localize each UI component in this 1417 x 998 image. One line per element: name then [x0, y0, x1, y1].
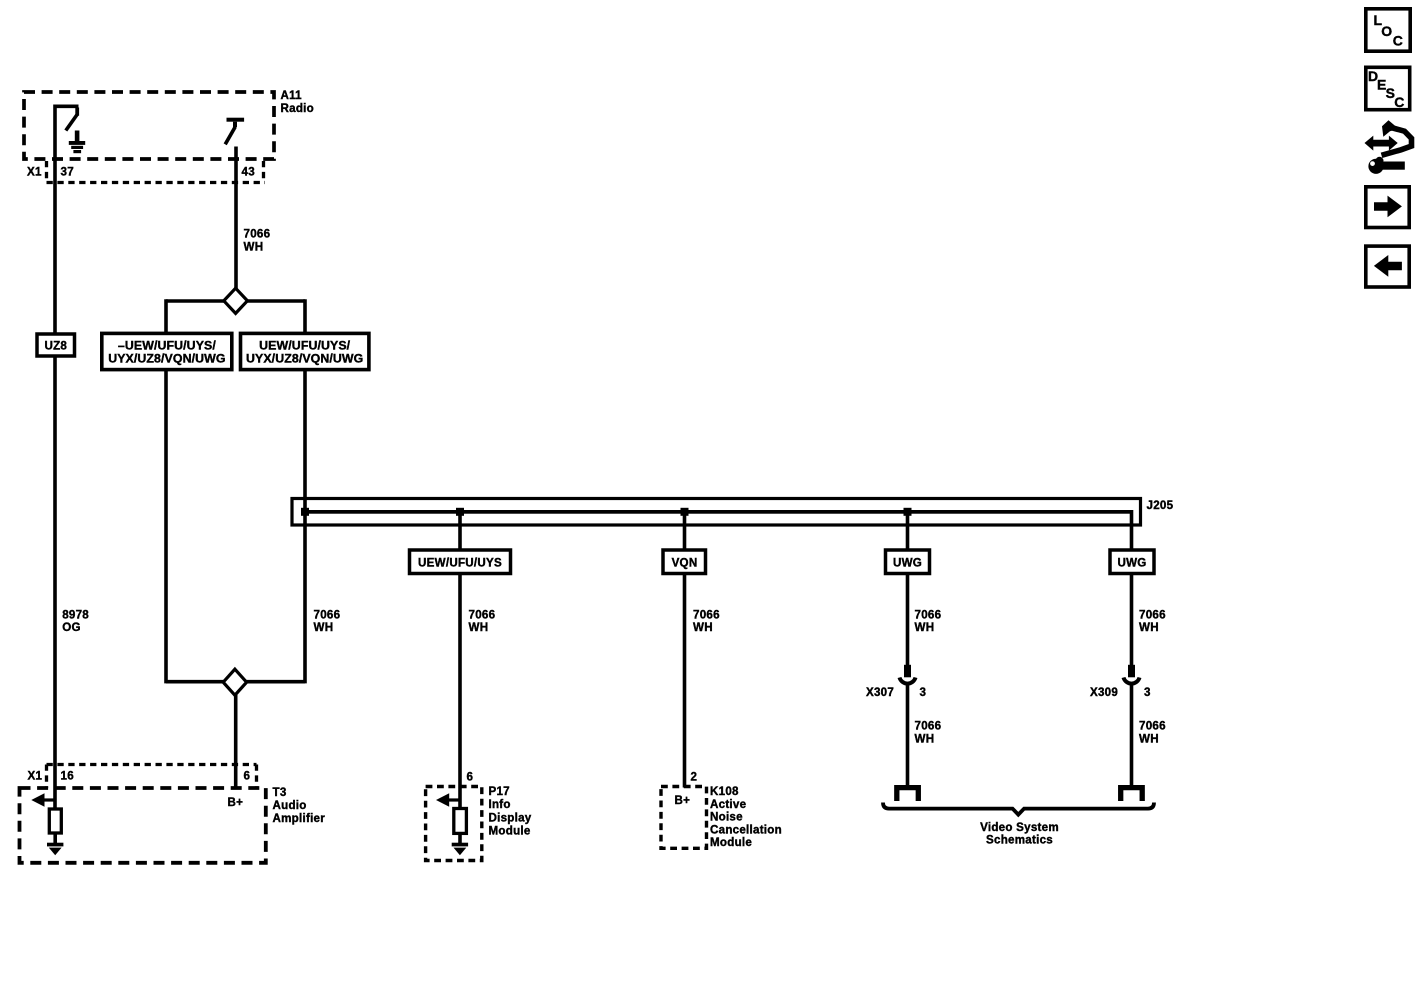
- svg-text:B+: B+: [675, 794, 691, 807]
- svg-text:X1: X1: [28, 770, 43, 783]
- svg-text:3: 3: [920, 686, 927, 699]
- svg-text:–UEW/UFU/UYS/: –UEW/UFU/UYS/: [118, 338, 216, 352]
- svg-text:8978: 8978: [62, 609, 89, 622]
- svg-text:Cancellation: Cancellation: [710, 824, 782, 837]
- svg-text:P17: P17: [489, 785, 510, 798]
- svg-text:Noise: Noise: [710, 811, 743, 824]
- svg-text:43: 43: [242, 166, 256, 179]
- svg-text:B+: B+: [228, 796, 244, 809]
- svg-text:7066: 7066: [469, 609, 496, 622]
- svg-text:J205: J205: [1147, 499, 1174, 512]
- svg-text:UWG: UWG: [893, 557, 922, 570]
- svg-text:UEW/UFU/UYS/: UEW/UFU/UYS/: [259, 338, 351, 352]
- svg-text:WH: WH: [915, 733, 935, 746]
- svg-text:Active: Active: [710, 798, 747, 811]
- svg-text:WH: WH: [1139, 621, 1159, 634]
- svg-text:WH: WH: [244, 241, 264, 254]
- svg-text:C: C: [1393, 32, 1403, 48]
- svg-text:7066: 7066: [314, 609, 341, 622]
- svg-text:X1: X1: [27, 166, 42, 179]
- svg-text:T3: T3: [273, 786, 287, 799]
- svg-text:7066: 7066: [1139, 609, 1166, 622]
- svg-text:VQN: VQN: [672, 557, 698, 570]
- svg-text:Radio: Radio: [281, 102, 314, 115]
- svg-text:7066: 7066: [915, 609, 942, 622]
- svg-text:Amplifier: Amplifier: [273, 812, 326, 825]
- svg-text:X309: X309: [1090, 686, 1118, 699]
- svg-text:Display: Display: [489, 812, 532, 825]
- svg-text:6: 6: [467, 771, 474, 784]
- svg-text:7066: 7066: [693, 609, 720, 622]
- svg-text:Video System: Video System: [980, 821, 1059, 834]
- svg-text:UEW/UFU/UYS: UEW/UFU/UYS: [418, 557, 502, 570]
- svg-text:3: 3: [1144, 686, 1151, 699]
- svg-text:Info: Info: [489, 798, 511, 811]
- svg-text:UZ8: UZ8: [44, 340, 67, 353]
- svg-text:37: 37: [61, 166, 74, 179]
- svg-text:7066: 7066: [244, 228, 271, 241]
- svg-text:Audio: Audio: [273, 799, 307, 812]
- svg-text:WH: WH: [1139, 733, 1159, 746]
- svg-text:O: O: [1381, 23, 1392, 39]
- svg-text:UYX/UZ8/VQN/UWG: UYX/UZ8/VQN/UWG: [246, 352, 363, 366]
- svg-text:WH: WH: [469, 621, 489, 634]
- svg-text:Module: Module: [710, 836, 752, 849]
- svg-text:OG: OG: [62, 621, 81, 634]
- svg-text:X307: X307: [866, 686, 894, 699]
- svg-text:6: 6: [244, 770, 251, 783]
- svg-text:Schematics: Schematics: [986, 834, 1053, 847]
- svg-text:WH: WH: [693, 621, 713, 634]
- svg-text:Module: Module: [489, 825, 531, 838]
- svg-text:UYX/UZ8/VQN/UWG: UYX/UZ8/VQN/UWG: [108, 352, 225, 366]
- svg-text:A11: A11: [281, 89, 303, 102]
- svg-text:7066: 7066: [1139, 720, 1166, 733]
- svg-text:WH: WH: [314, 621, 334, 634]
- svg-text:7066: 7066: [915, 720, 942, 733]
- svg-text:WH: WH: [915, 621, 935, 634]
- svg-text:2: 2: [691, 771, 698, 784]
- svg-text:UWG: UWG: [1117, 557, 1146, 570]
- svg-text:C: C: [1394, 94, 1404, 110]
- svg-text:K108: K108: [710, 785, 739, 798]
- svg-text:16: 16: [61, 770, 75, 783]
